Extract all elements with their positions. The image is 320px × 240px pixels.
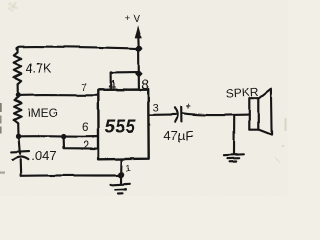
svg-text:+: + — [125, 13, 131, 24]
wire bottom rail to pin 1 — [21, 174, 121, 177]
svg-text:.047: .047 — [31, 148, 56, 163]
resistor R1 4.7K zigzag — [14, 53, 22, 84]
svg-text:+: + — [186, 101, 192, 112]
svg-text:4.7K: 4.7K — [26, 62, 52, 76]
wire C2 to speaker — [182, 113, 249, 115]
capacitor C2 47uF straight plate — [180, 107, 182, 122]
paper background — [0, 0, 288, 196]
speaker cone — [259, 89, 272, 135]
wire pin 8 / +V vertical — [138, 48, 140, 89]
wire pin 6 lead — [19, 135, 98, 138]
speaker driver rect — [249, 98, 258, 130]
node R1/R2/pin7 junction — [15, 92, 20, 97]
svg-text:1: 1 — [125, 163, 130, 173]
node pin1/ground junction — [118, 172, 124, 178]
node pin2 branch junction — [61, 134, 66, 139]
node pin4/pin8 junction — [135, 70, 143, 78]
op IC U1 555 box — [98, 90, 148, 160]
capacitor C1 top lead — [19, 137, 20, 151]
wire pin 2 branch — [64, 137, 98, 149]
wire +V arrow shaft — [137, 34, 140, 48]
svg-text:7: 7 — [81, 82, 87, 93]
capacitor C1 bottom curved plate — [13, 157, 29, 160]
capacitor C1 bottom lead — [20, 159, 23, 176]
node R2/C1/pin6 junction — [16, 134, 21, 139]
ground spkr bar3 — [230, 160, 237, 162]
wire rail between R1 and node — [17, 84, 19, 95]
ground spkr bar1 — [224, 153, 244, 156]
svg-text:3: 3 — [153, 103, 159, 115]
speaker LS1 — [249, 89, 271, 135]
wire speaker ground branch — [233, 115, 235, 154]
svg-text:47µF: 47µF — [163, 128, 193, 143]
svg-text:2: 2 — [83, 140, 89, 152]
svg-text:555: 555 — [105, 116, 137, 136]
resistor R2 1MEG zigzag — [14, 97, 22, 123]
svg-text:V: V — [134, 13, 141, 25]
wire pin 3 lead — [149, 113, 176, 116]
ground pin1 bar2 — [115, 188, 126, 191]
svg-text:4: 4 — [108, 77, 116, 93]
ground spkr bar2 — [227, 157, 239, 160]
svg-text:IMEG: IMEG — [27, 106, 58, 120]
svg-text:8: 8 — [141, 76, 149, 92]
capacitor C1 overshoot stub — [19, 152, 21, 154]
wire rail between R2 and node — [17, 123, 19, 136]
wire pin 4 loop — [111, 72, 139, 89]
ground pin1 bar1 — [111, 184, 131, 185]
wire pin 1 lead — [120, 159, 123, 183]
node +V junction — [136, 46, 142, 52]
wire pin 7 lead — [18, 94, 98, 96]
scan artifacts — [0, 2, 287, 174]
wire top rail from left rail to +V node — [17, 46, 142, 49]
capacitor C2 47uF curved plate — [175, 107, 178, 121]
+V arrowhead — [135, 25, 142, 38]
wire left rail upper segment — [16, 47, 18, 52]
ground pin1 bar3 — [118, 192, 123, 194]
capacitor C1 .047 top plate — [11, 150, 29, 153]
svg-text:6: 6 — [82, 122, 88, 134]
